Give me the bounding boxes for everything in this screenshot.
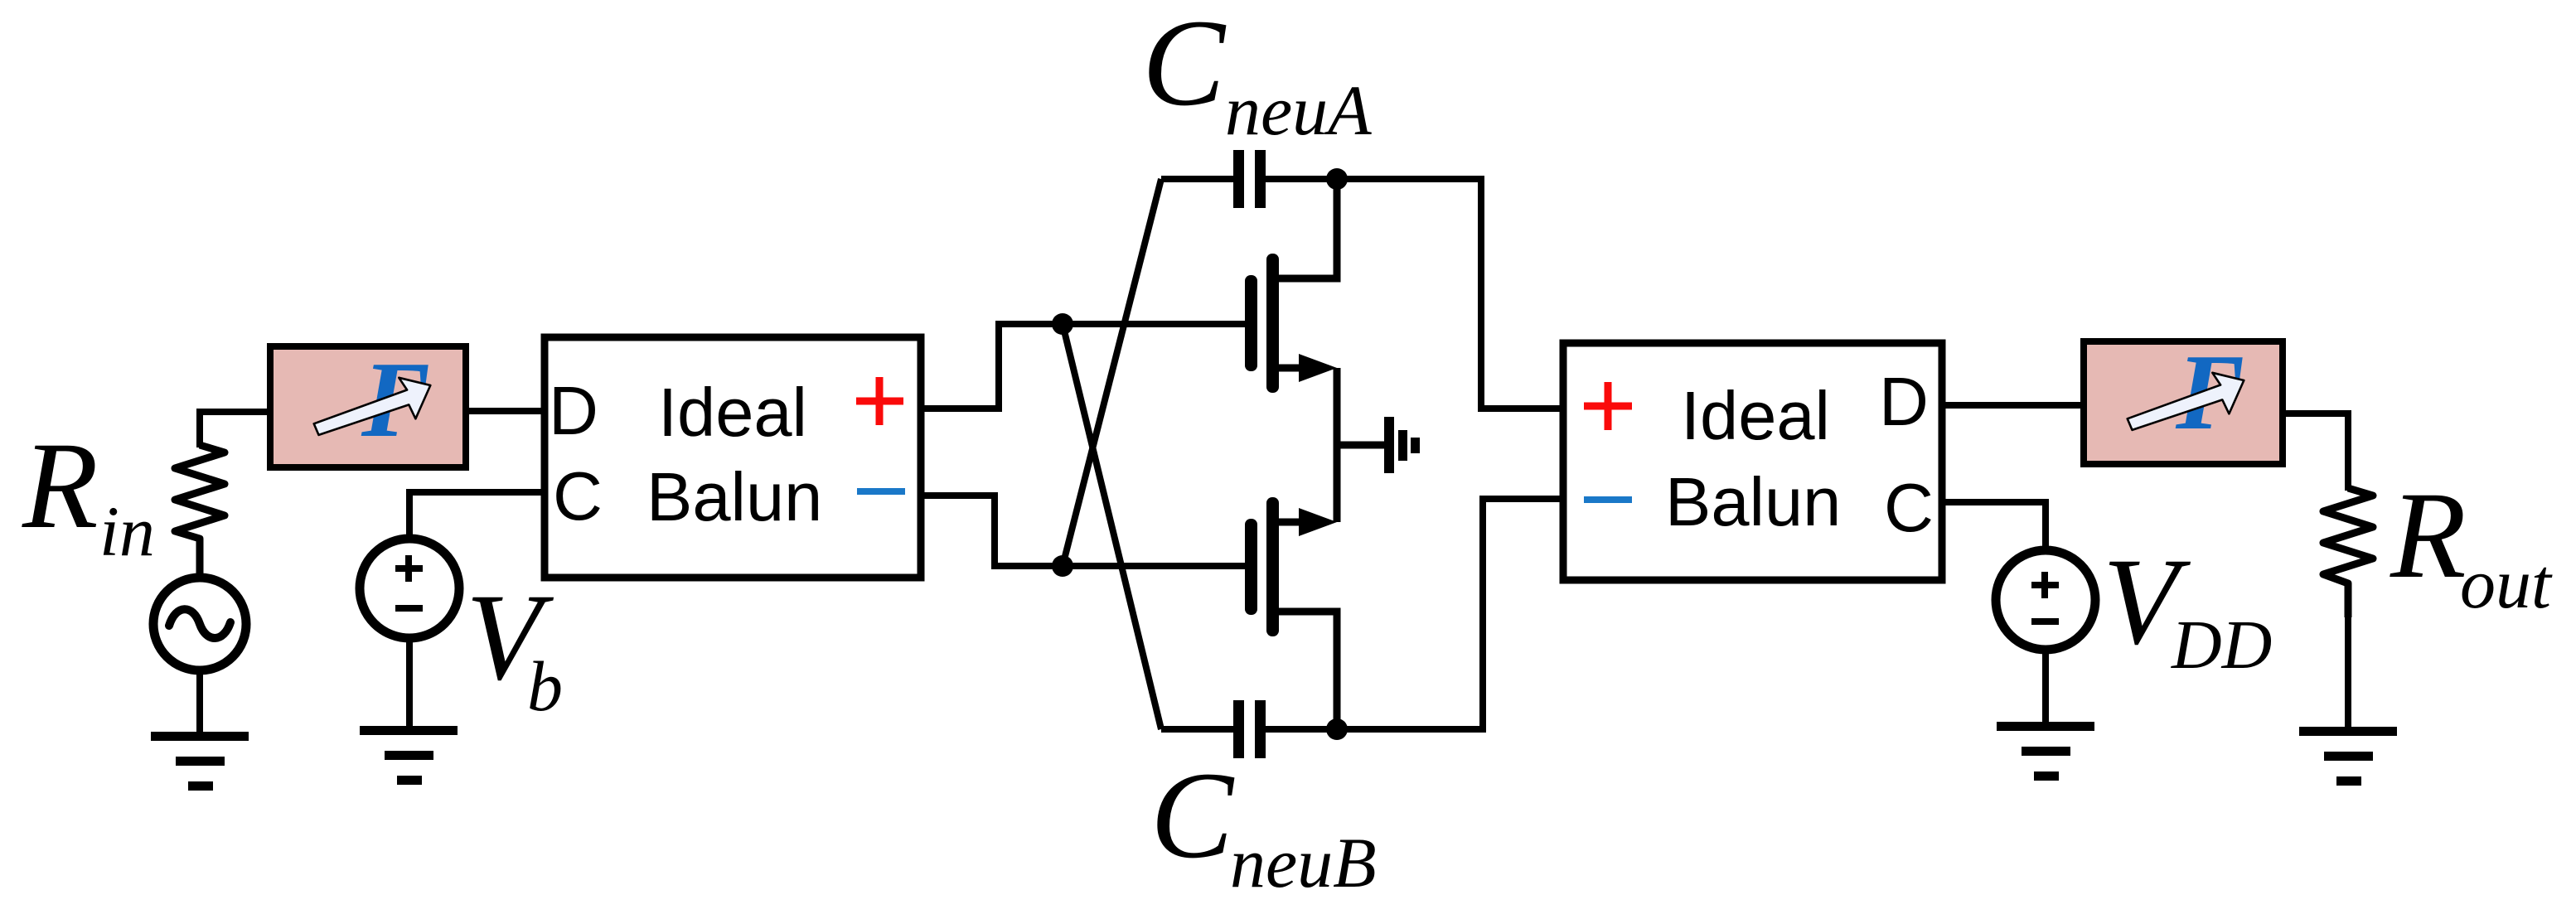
svg-text:neuB: neuB bbox=[1230, 823, 1377, 902]
minus terminal U2 bbox=[1584, 496, 1632, 503]
wire Rout to ground bbox=[2345, 583, 2351, 728]
label CneuB bbox=[1150, 747, 1377, 902]
wire VDD to ground bbox=[2042, 646, 2049, 723]
wire node B to balun2 minus bbox=[1483, 499, 1563, 671]
node B bbox=[1326, 718, 1348, 740]
wire V1 to ground bbox=[196, 670, 203, 733]
capacitor CneuB bbox=[1161, 663, 1483, 758]
svg-text:D: D bbox=[1879, 363, 1929, 440]
resistor Rout bbox=[2323, 488, 2373, 617]
wire source top to gamma1 bbox=[200, 412, 274, 447]
svg-text:b: b bbox=[527, 646, 563, 726]
wire gamma1 to balun1 D bbox=[466, 408, 545, 414]
svg-text:Balun: Balun bbox=[1665, 463, 1841, 540]
svg-text:Ideal: Ideal bbox=[658, 374, 807, 451]
svg-text:out: out bbox=[2460, 544, 2553, 623]
svg-text:in: in bbox=[99, 491, 155, 571]
svg-text:Ideal: Ideal bbox=[1681, 377, 1830, 454]
svg-text:DD: DD bbox=[2171, 607, 2272, 684]
gamma block G1 bbox=[270, 340, 466, 467]
label Rout bbox=[2390, 467, 2553, 623]
wire Vb to balun1 C bbox=[409, 492, 545, 539]
svg-text:C: C bbox=[1150, 747, 1235, 884]
svg-text:C: C bbox=[1884, 469, 1934, 546]
AC source V1 bbox=[153, 578, 246, 670]
wire balun1 plus to gate M1 bbox=[921, 324, 1248, 409]
source VDD bbox=[1996, 550, 2095, 650]
svg-text:R: R bbox=[22, 417, 99, 554]
label CneuA bbox=[1142, 0, 1372, 150]
wire balun2 C to VDD bbox=[1942, 502, 2046, 554]
plus terminal U2 bbox=[1584, 382, 1632, 430]
node A bbox=[1326, 168, 1348, 190]
resistor Rin bbox=[175, 445, 225, 575]
transistor M2 bbox=[1245, 497, 1337, 729]
wire cross-couple N to CneuA bbox=[1063, 179, 1161, 566]
svg-text:neuA: neuA bbox=[1225, 70, 1372, 150]
wire node A to balun2 plus bbox=[1481, 240, 1563, 409]
ground GND2 bbox=[360, 726, 458, 785]
ground GND3 sideways bbox=[1384, 417, 1420, 473]
balun U2 bbox=[1563, 343, 1942, 580]
label Rin bbox=[22, 417, 155, 571]
ground GND5 bbox=[2299, 727, 2397, 786]
node P bbox=[1052, 313, 1073, 335]
balun U1 bbox=[545, 337, 921, 578]
wire balun1 minus to gate M2 bbox=[921, 496, 1248, 566]
wire gamma2 to Rout bbox=[2283, 414, 2348, 491]
wire balun2 D to gamma2 bbox=[1942, 402, 2084, 409]
capacitor CneuA bbox=[1161, 150, 1481, 249]
svg-text:R: R bbox=[2390, 467, 2467, 604]
plus terminal U1 bbox=[856, 377, 903, 425]
ground GND1 bbox=[151, 732, 249, 791]
wire cross-couple P to CneuB bbox=[1063, 324, 1161, 729]
svg-text:C: C bbox=[1142, 0, 1227, 132]
node N bbox=[1052, 555, 1073, 577]
wire common source bbox=[1334, 368, 1341, 522]
source Vb bbox=[360, 539, 459, 638]
wire to ground tap bbox=[1337, 442, 1384, 449]
gamma block G2 bbox=[2084, 332, 2283, 464]
label VDD bbox=[2103, 533, 2272, 684]
transistor M1 bbox=[1245, 179, 1337, 393]
svg-text:C: C bbox=[553, 457, 603, 534]
ground GND4 bbox=[1997, 722, 2094, 781]
label Vb bbox=[466, 568, 563, 726]
wire Vb to ground bbox=[406, 635, 413, 727]
minus terminal U1 bbox=[857, 488, 905, 495]
svg-text:Balun: Balun bbox=[646, 458, 822, 535]
svg-text:D: D bbox=[549, 372, 598, 449]
